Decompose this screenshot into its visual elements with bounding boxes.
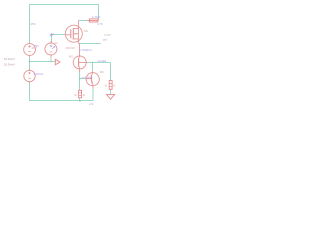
wire corner down to V2 xyxy=(51,35,53,44)
wire M2 base to right xyxy=(86,62,110,64)
transistor Q3 xyxy=(86,71,99,89)
wire bottom rail xyxy=(29,100,93,102)
svg-text:0.00V: 0.00V xyxy=(104,33,111,37)
wire M2 emitter down to RE xyxy=(79,72,81,90)
svg-text:4.7K: 4.7K xyxy=(97,22,103,26)
svg-text:p=648mV: p=648mV xyxy=(80,48,93,52)
wire Q3 emitter down xyxy=(92,89,94,101)
svg-text:M2: M2 xyxy=(69,55,73,59)
svg-text:2V: 2V xyxy=(54,41,58,45)
svg-text:1k: 1k xyxy=(82,94,85,97)
node out wire xyxy=(79,43,101,45)
wire R2 to ground xyxy=(110,90,112,95)
svg-text:1k: 1k xyxy=(104,85,107,88)
junction V2 bottom xyxy=(50,61,52,63)
svg-text:v=1.84V: v=1.84V xyxy=(82,76,93,80)
wire left rail down to V1 xyxy=(29,5,31,44)
resistor R2 xyxy=(109,81,112,90)
wire V1 minus to V3 plus xyxy=(29,55,31,70)
voltage source V3 xyxy=(24,69,35,83)
svg-text:20.34mV: 20.34mV xyxy=(4,63,15,67)
voltage source V1 xyxy=(24,42,36,56)
wire M1 gate xyxy=(52,34,67,36)
transistor M1 xyxy=(65,20,82,43)
svg-text:25V: 25V xyxy=(34,44,39,48)
wire R1 left to M1 drain xyxy=(79,20,88,22)
wire Q3 collector up xyxy=(92,63,94,72)
svg-text:25V: 25V xyxy=(30,22,35,26)
wire Q3 base xyxy=(80,78,87,80)
svg-text:M1: M1 xyxy=(84,29,88,33)
voltage source V2 xyxy=(45,41,57,62)
junction Q3 base node xyxy=(79,78,81,80)
junction bottom rail RE xyxy=(79,100,81,102)
svg-text:4.7KΩ: 4.7KΩ xyxy=(92,15,101,19)
ground right-pointing at sources xyxy=(55,59,60,65)
resistor RE xyxy=(79,90,82,98)
wire V3 minus down xyxy=(29,82,31,101)
wire sources bottom to ground xyxy=(30,61,56,63)
wire RE bottom xyxy=(79,98,81,101)
transistor M2 xyxy=(73,44,86,73)
svg-text:4.64kΩ: 4.64kΩ xyxy=(97,59,107,63)
svg-text:20.34mV: 20.34mV xyxy=(4,57,15,61)
svg-text:1k: 1k xyxy=(113,84,116,87)
svg-text:2N7000: 2N7000 xyxy=(66,46,76,50)
ground under R2 xyxy=(107,94,115,99)
wire down to R2 xyxy=(110,63,112,81)
junction V1 bottom xyxy=(29,61,31,63)
label marker at V2 corner xyxy=(50,33,53,36)
junction M2 base / Q3 collector xyxy=(92,62,94,64)
svg-text:3.46mA: 3.46mA xyxy=(33,72,43,76)
svg-text:out: out xyxy=(103,38,107,42)
svg-text:v=0: v=0 xyxy=(89,102,94,106)
wire top rail VDD xyxy=(29,4,99,6)
svg-text:M3: M3 xyxy=(100,70,104,74)
resistor R1 xyxy=(87,19,98,22)
svg-text:1k: 1k xyxy=(74,94,77,97)
wire right rail down to R1 xyxy=(98,5,100,20)
